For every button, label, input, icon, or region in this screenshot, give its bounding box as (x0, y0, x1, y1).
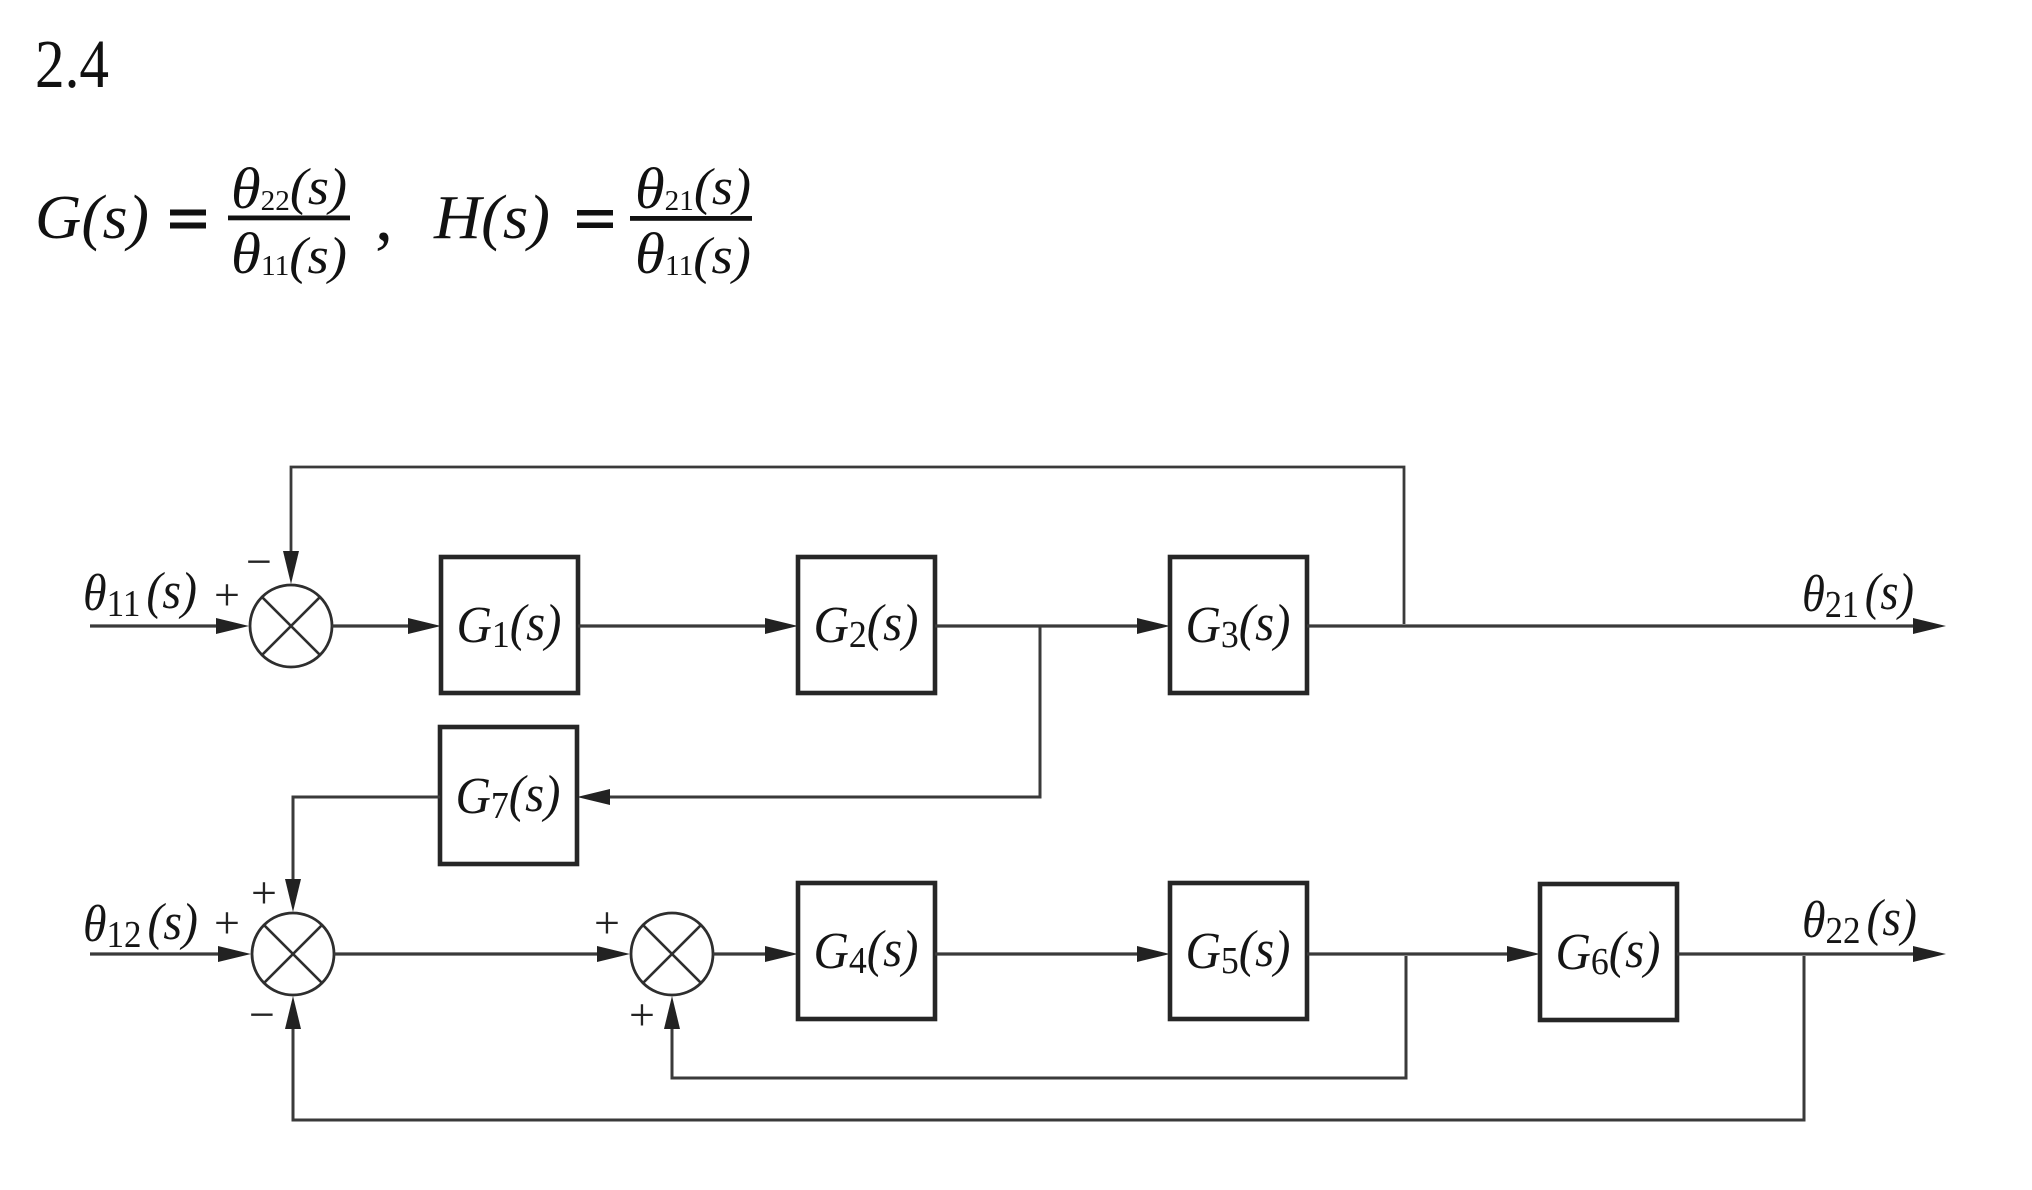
summing junction S2 (252, 913, 334, 995)
svg-text:−: − (246, 536, 272, 587)
block G7 (440, 727, 577, 864)
block G6 (1540, 884, 1677, 1020)
block G5 (1170, 883, 1307, 1019)
svg-text:θ22(s): θ22(s) (231, 156, 347, 221)
feedback wire top: tap after G3 up and left to S1 (283, 467, 1404, 624)
svg-text:G3(s): G3(s) (1186, 595, 1291, 656)
block G4 (798, 883, 935, 1019)
svg-text:G(s): G(s) (35, 184, 149, 252)
summing junction S1 (250, 585, 332, 667)
wire input row1 into summer S1 (90, 618, 249, 634)
svg-text:+: + (629, 989, 655, 1040)
wire G1 to G2 (578, 618, 798, 634)
block G2 (798, 557, 935, 693)
wire input row2 into summer S2 (90, 946, 251, 962)
svg-text:H(s): H(s) (433, 184, 550, 252)
svg-text:G4(s): G4(s) (814, 921, 919, 982)
svg-text:,: , (375, 176, 393, 256)
svg-text:G5(s): G5(s) (1186, 921, 1291, 982)
svg-text:+: + (594, 897, 620, 948)
block G1 (441, 557, 578, 693)
svg-text:G6(s): G6(s) (1556, 922, 1661, 983)
equation equals sign 2 (577, 210, 613, 228)
wire G4 to G5 (935, 946, 1170, 962)
svg-text:2.4: 2.4 (35, 26, 109, 102)
svg-text:+: + (214, 569, 240, 620)
wire S1 to block G1 (332, 618, 441, 634)
equation fraction 2 bar (630, 216, 752, 221)
equation fraction 1 bar (228, 216, 350, 221)
equation equals sign 1 (170, 210, 206, 229)
svg-text:−: − (249, 989, 275, 1040)
svg-text:+: + (214, 897, 240, 948)
svg-text:G1(s): G1(s) (457, 595, 562, 656)
block G3 (1170, 557, 1307, 693)
feedback wire: tap after G5 down and left up into S3 (664, 956, 1406, 1078)
svg-text:θ11(s): θ11(s) (635, 221, 751, 286)
svg-text:θ21(s): θ21(s) (635, 156, 751, 221)
wire S2 to summer S3 (334, 946, 630, 962)
tap wire after G2 down to G7 input (577, 626, 1040, 805)
wire G3 to output theta21 (1307, 618, 1946, 634)
svg-text:G7(s): G7(s) (456, 766, 561, 827)
wire G7 output left and down into S2 (285, 797, 440, 912)
wire G6 to output theta22 (1677, 946, 1946, 962)
svg-text:+: + (251, 867, 277, 918)
wire S3 to block G4 (713, 946, 798, 962)
feedback wire: tap after G6 down and left up into S2 (285, 956, 1804, 1120)
svg-text:θ11(s): θ11(s) (231, 221, 347, 286)
summing junction S3 (631, 913, 713, 995)
svg-text:G2(s): G2(s) (814, 595, 919, 656)
wire G2 to G3 (935, 618, 1170, 634)
wire G5 to G6 (1307, 946, 1540, 962)
